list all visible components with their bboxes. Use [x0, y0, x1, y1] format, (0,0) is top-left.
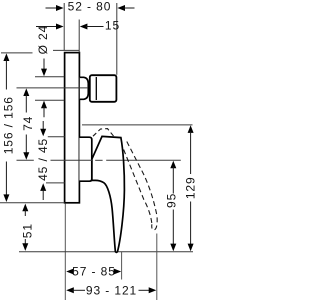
dimension 15 line right [86, 26, 104, 28]
dimension 57-85 arrow right [114, 269, 122, 275]
handle axis segment over lever 2 [106, 159, 123, 161]
svg-text:Ø 24: Ø 24 [36, 25, 50, 55]
wall plate escutcheon [65, 53, 80, 203]
dimension 15 arrow left [56, 24, 64, 30]
wall reference line top [63, 3, 65, 50]
dimension Ø24 arrow down [41, 69, 47, 77]
spout front reference line top [116, 3, 118, 75]
dimension Ø24 lower shaft [43, 107, 45, 118]
dimension 93-121 line left [72, 289, 85, 291]
spout axis line [17, 87, 89, 89]
dimension 93-121 arrow left [66, 287, 74, 293]
handle lowest point reference line [19, 251, 193, 253]
dimension 74 arrow up [23, 88, 29, 96]
wall surface horizontal line [53, 49, 79, 51]
handle axis reference line mid [51, 159, 93, 161]
spout stub body [90, 75, 117, 102]
dimension 129 arrow up [188, 125, 194, 133]
dimension 95 arrow down [170, 244, 176, 252]
dimension 15 arrow right [80, 24, 88, 30]
dimension 95 lower shaft [172, 210, 174, 246]
svg-text:52 - 80: 52 - 80 [68, 0, 112, 13]
dimension 52-80 arrow left [56, 5, 64, 11]
wall plane extension bottom [64, 204, 66, 300]
dimension 95 upper shaft [172, 167, 174, 194]
handle axis segment over lever [95, 159, 102, 161]
svg-text:129: 129 [184, 176, 198, 199]
dimension Ø24 arrow up [41, 101, 47, 109]
dimension 52-80 arrow right [117, 5, 125, 11]
dimension 45/45 lower shaft [42, 189, 44, 200]
spout stub crease [95, 77, 97, 100]
svg-text:95: 95 [165, 193, 179, 208]
dimension 45/45 arrow up [40, 183, 46, 191]
hub top reference tick [48, 136, 65, 138]
dimension 51 arrow down [22, 243, 28, 251]
dimension 15 line left [36, 26, 58, 28]
dimension 95 arrow up [170, 161, 176, 169]
dimension 52-80 line right [123, 7, 134, 9]
svg-text:51: 51 [21, 223, 35, 238]
handle top reference line (129) [82, 124, 193, 126]
dimension 45/45 arrow down [40, 129, 46, 137]
handle hub [79, 137, 91, 181]
plate bottom reference line left [0, 202, 65, 204]
svg-text:74: 74 [21, 116, 35, 131]
dimension 51 lower shaft [24, 239, 26, 245]
open handle dashed lower edge [124, 150, 152, 225]
dimension 129 upper shaft [190, 131, 192, 174]
dimension 74 lower shaft [25, 135, 27, 154]
dimension 129 arrow down [188, 244, 194, 252]
handle axis reference line left [17, 159, 34, 161]
dimension 93-121 arrow right [149, 287, 157, 293]
handle axis reference line right (95) [124, 159, 181, 161]
dimension 45/45 upper shaft [42, 121, 44, 131]
plate top reference tick left [1, 52, 33, 54]
dimension 156/156 arrow down [3, 194, 9, 202]
handle tip extension line [121, 252, 123, 280]
dimension Ø24 upper shaft [43, 59, 45, 71]
dimension 93-121 line right [139, 289, 151, 291]
svg-text:57 - 85: 57 - 85 [72, 265, 116, 279]
spout bottom reference tick [35, 99, 64, 101]
dimension 156/156 arrow up [3, 53, 9, 61]
dimension 74 upper shaft [25, 94, 27, 112]
dimension 52-80 line left [46, 7, 58, 9]
dimension 156/156 lower shaft [5, 162, 7, 196]
svg-text:45 / 45: 45 / 45 [36, 138, 50, 181]
open handle dashed top arc [93, 129, 114, 137]
hub bottom reference tick [46, 182, 65, 184]
svg-text:15: 15 [105, 19, 120, 33]
dimension 74 arrow down [23, 152, 29, 160]
svg-text:93 - 121: 93 - 121 [86, 283, 137, 297]
dimension 51 arrow up [22, 204, 28, 212]
open handle dashed upper edge [127, 142, 157, 231]
open handle tip extension line [156, 234, 158, 300]
dimension 57-85 arrow left [66, 269, 74, 275]
dimension 129 lower shaft [190, 202, 192, 246]
dimension 156/156 upper shaft [5, 59, 7, 89]
plate front reference line top [78, 20, 80, 53]
svg-text:156 / 156: 156 / 156 [1, 96, 15, 154]
dimension 51 upper shaft [24, 210, 26, 216]
spout top reference tick [35, 76, 64, 78]
handle lever solid [92, 136, 125, 252]
spout horn [80, 77, 89, 99]
